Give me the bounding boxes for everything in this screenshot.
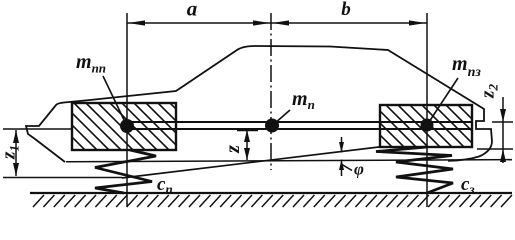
car body outline [26, 46, 492, 162]
wire z2 top tick [492, 121, 513, 123]
svg-text:z2: z2 [478, 84, 501, 99]
dimension phi upper mark [341, 137, 343, 153]
arrow z1 down [13, 163, 19, 176]
leader mп [274, 110, 290, 124]
wire z top tick [237, 130, 258, 132]
dimension z2 line [502, 97, 504, 163]
ground line [30, 192, 512, 194]
svg-text:mпз: mпз [452, 53, 481, 80]
dimension phi lower mark [341, 160, 343, 177]
leader mпп [103, 76, 125, 122]
arrow z1 up [13, 130, 19, 143]
mass point rear (black circle) [421, 119, 434, 132]
wire top dimension line a-b [127, 22, 427, 24]
spring rear cз [376, 147, 453, 193]
svg-text:z1: z1 [0, 145, 22, 160]
arrow z2 up [500, 149, 506, 162]
wire z1 bottom extension [3, 177, 122, 179]
wire inclined body axis [122, 147, 383, 179]
svg-text:mпп: mпп [76, 51, 106, 76]
mass block rear mпз (hatched) [338, 105, 500, 147]
wire beam upper line [127, 121, 472, 123]
dimension z line [246, 130, 248, 160]
arrow b left [272, 20, 289, 25]
node rear wheel vertical line [426, 13, 428, 207]
mass point center (black circle) [265, 119, 279, 133]
spring front cп [95, 150, 156, 193]
svg-text:a: a [187, 0, 198, 21]
wire z1 top extension [3, 128, 74, 130]
mass block front mпп (hatched) [26, 103, 217, 150]
arrow phi down [339, 142, 344, 153]
mass point front (black circle) [120, 119, 134, 133]
node front wheel vertical line [126, 13, 128, 207]
arrow z up [244, 130, 250, 142]
leader phi [342, 165, 352, 171]
arrow z2 down [500, 109, 506, 122]
dimension z1 line [15, 130, 17, 176]
leader mпз [429, 78, 458, 122]
wire beam lower line [127, 128, 472, 130]
ground hatching [33, 195, 512, 207]
wire static axis line (sill) [66, 160, 512, 162]
wire z2 bottom tick [477, 148, 513, 150]
arrow a left [128, 20, 145, 25]
svg-text:b: b [341, 0, 351, 20]
arrow z down [244, 148, 250, 160]
arrow b right [409, 20, 426, 25]
svg-text:mп: mп [292, 88, 315, 112]
svg-text:φ: φ [354, 160, 364, 179]
arrow phi up [339, 160, 344, 171]
arrow a right [253, 20, 270, 25]
svg-text:z: z [222, 145, 244, 154]
node center dash-dot line [270, 13, 272, 170]
